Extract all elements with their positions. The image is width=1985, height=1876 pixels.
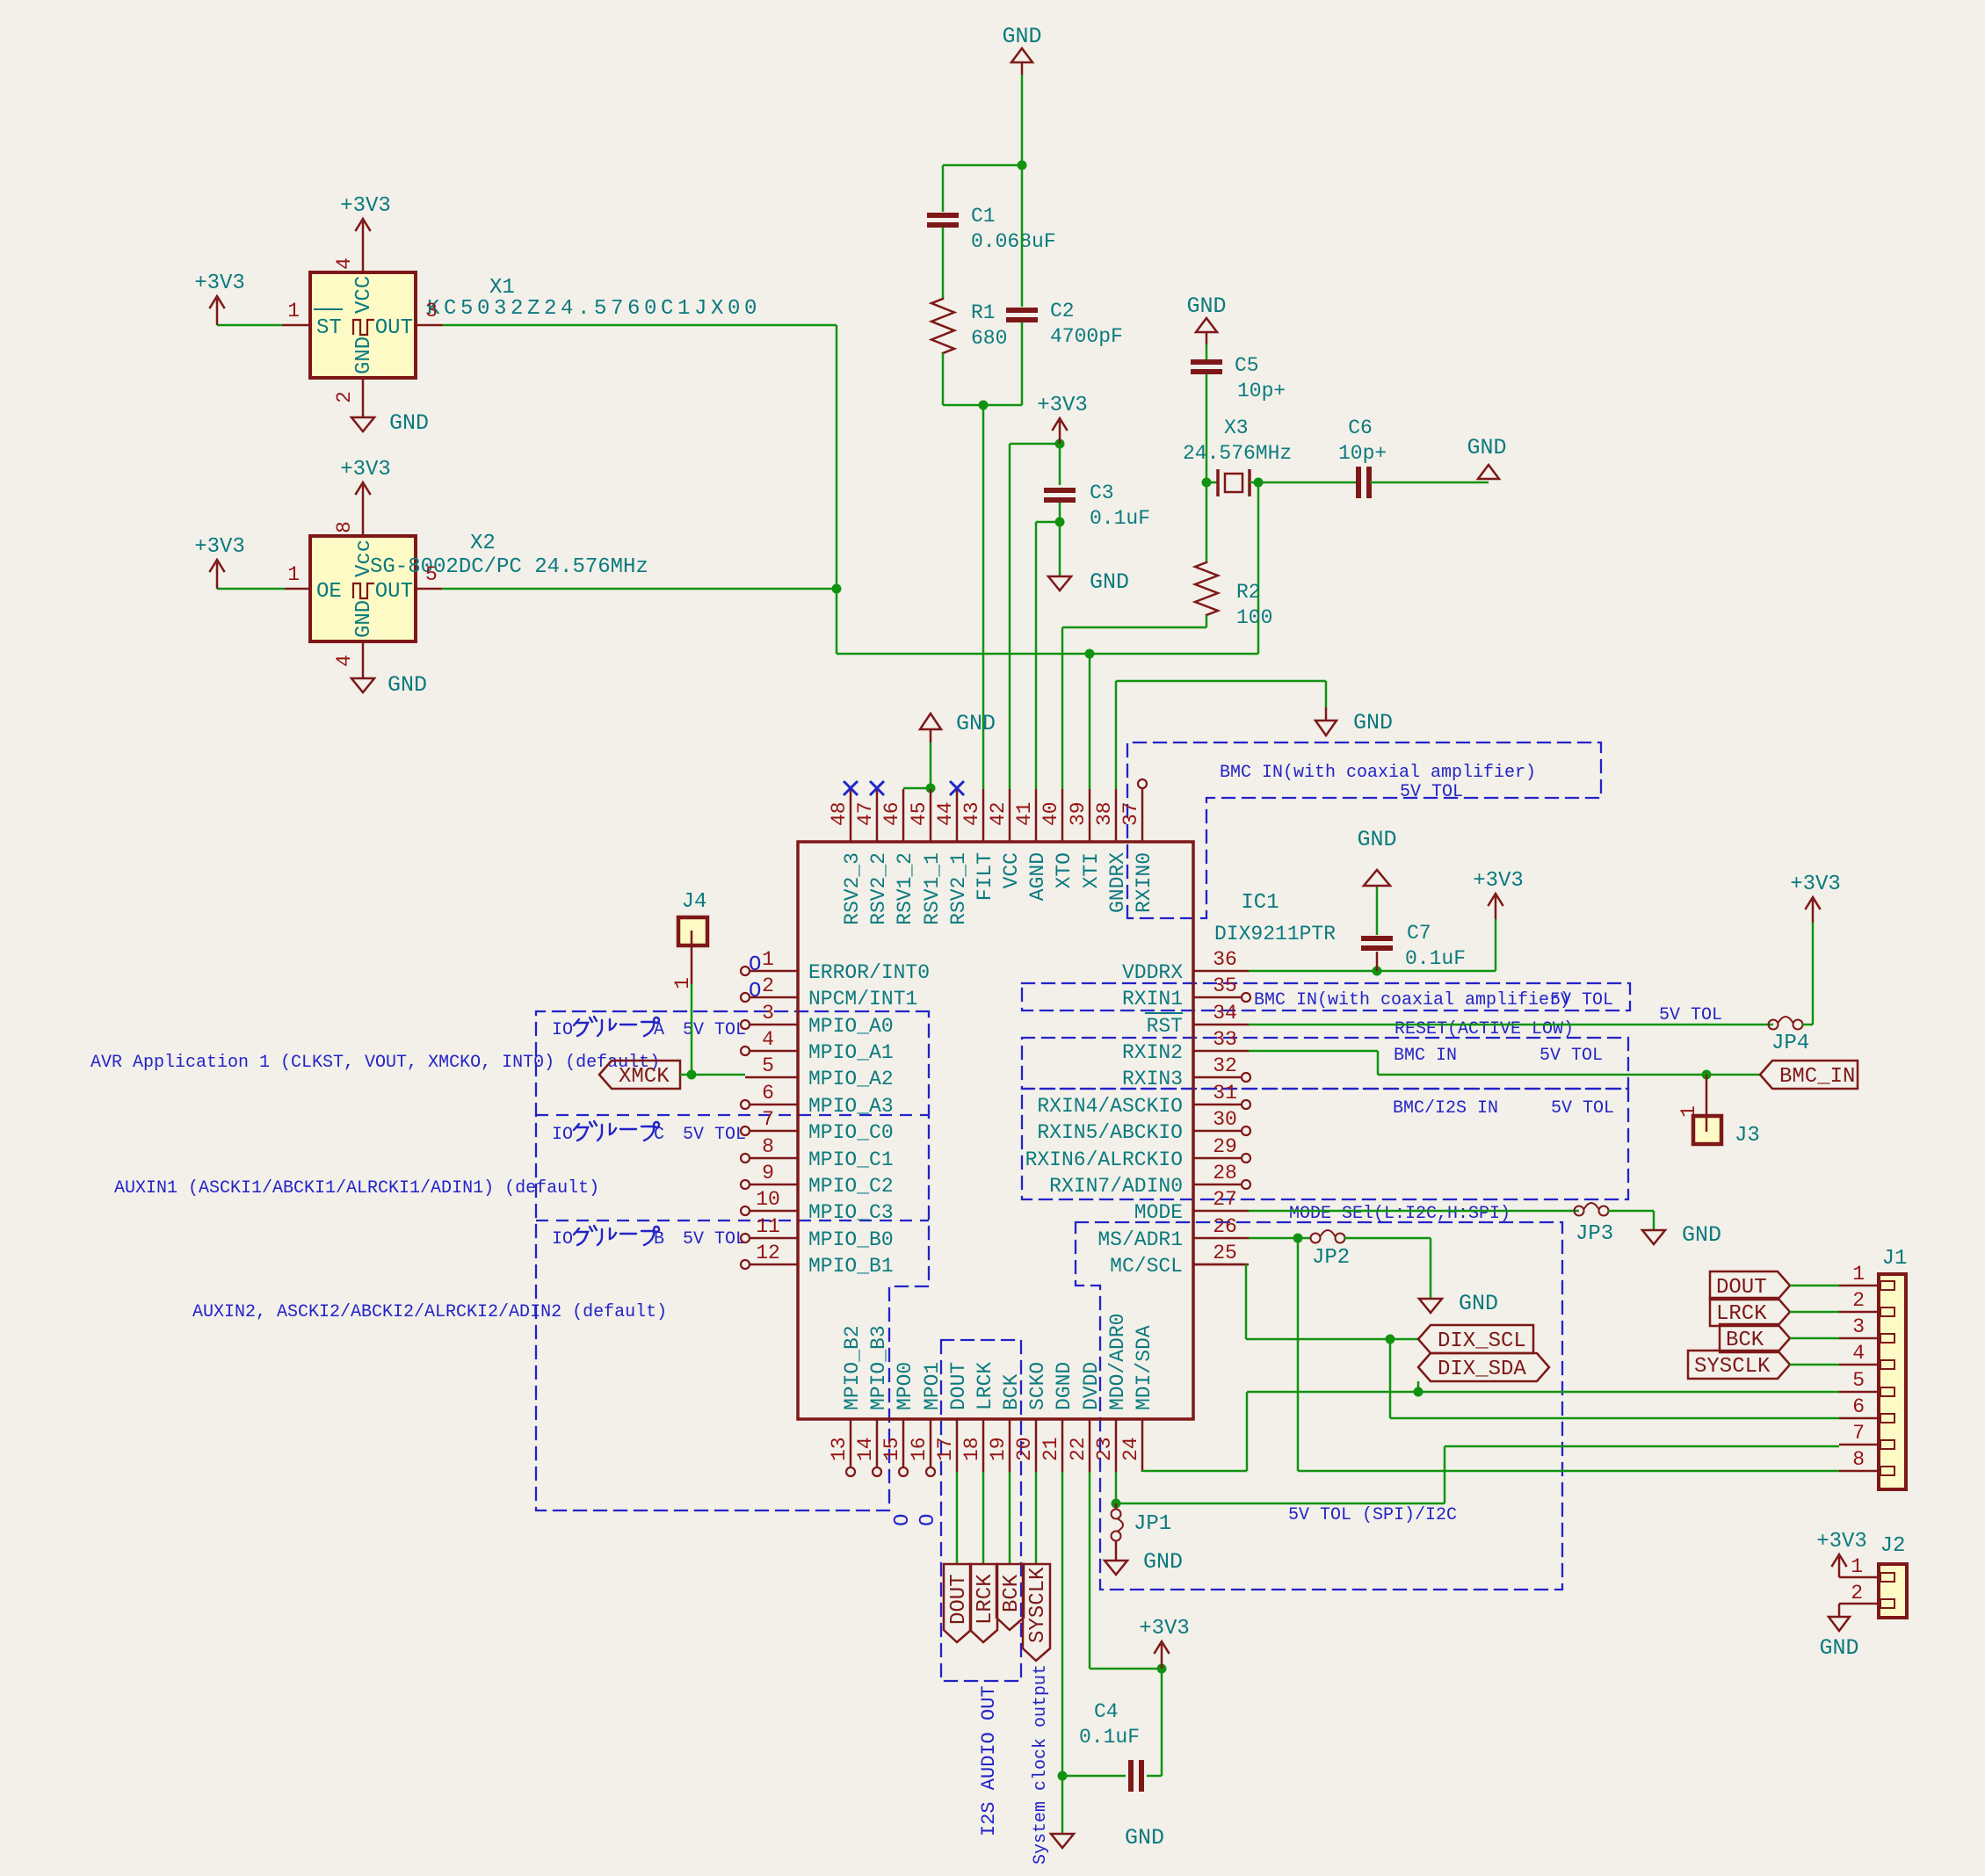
svg-text:GND: GND <box>1459 1291 1498 1316</box>
power +3V3 <box>216 299 219 325</box>
IC1 pin 40 XTO <box>1061 789 1064 842</box>
svg-text:BMC IN: BMC IN <box>1394 1046 1457 1066</box>
svg-text:JP2: JP2 <box>1312 1246 1350 1270</box>
svg-text:R2: R2 <box>1236 581 1261 604</box>
power GND <box>1051 1834 1074 1848</box>
svg-text:4: 4 <box>333 655 356 667</box>
power +3V3 <box>362 221 365 223</box>
note line IO group C top <box>536 1114 929 1116</box>
svg-text:MDI/SDA: MDI/SDA <box>1133 1325 1156 1410</box>
svg-text:5V TOL: 5V TOL <box>1659 1005 1722 1025</box>
X2 pin 8 (Vcc) <box>362 485 365 536</box>
wire XMCK to pin5 <box>680 1074 745 1076</box>
svg-text:1: 1 <box>287 300 300 322</box>
svg-text:O: O <box>891 1514 915 1526</box>
svg-text:MPIO_B2: MPIO_B2 <box>841 1325 864 1410</box>
svg-text:SYSCLK: SYSCLK <box>1026 1567 1050 1643</box>
svg-text:8: 8 <box>1852 1448 1865 1471</box>
J2 +3V3 <box>1838 1557 1841 1577</box>
svg-text:RESET(ACTIVE LOW): RESET(ACTIVE LOW) <box>1395 1019 1574 1039</box>
svg-text:47: 47 <box>854 801 877 826</box>
X2 pin 5 (OUT) <box>416 588 442 590</box>
svg-text:C5: C5 <box>1235 354 1259 377</box>
svg-text:15: 15 <box>880 1437 903 1461</box>
svg-text:MPIO_B1: MPIO_B1 <box>808 1255 894 1278</box>
svg-text:SYSCLK: SYSCLK <box>1694 1355 1771 1379</box>
svg-text:2: 2 <box>1852 1289 1865 1312</box>
J1 pin 8 <box>1839 1470 1879 1473</box>
svg-text:DVDD: DVDD <box>1080 1362 1103 1410</box>
junction C1/C2 top <box>1018 161 1027 170</box>
svg-text:AGND: AGND <box>1026 852 1049 901</box>
svg-text:32: 32 <box>1213 1054 1237 1077</box>
svg-text:GND: GND <box>1002 24 1041 49</box>
global label DIX_SCL <box>1418 1325 1533 1353</box>
svg-text:0.068uF: 0.068uF <box>971 230 1056 253</box>
junction X2 OUT <box>832 584 842 594</box>
J4 pin 1 <box>691 945 693 984</box>
svg-text:42: 42 <box>987 801 1010 826</box>
power GND <box>351 417 374 431</box>
wire C6 to GND <box>1370 482 1489 484</box>
power +3V3 <box>1495 896 1497 919</box>
oscillator X1 KC5032Z24.5760C1JX00 <box>310 272 416 378</box>
svg-text:DOUT: DOUT <box>947 1362 970 1410</box>
svg-text:+3V3: +3V3 <box>340 458 391 482</box>
svg-text:FILT: FILT <box>974 852 996 901</box>
IC1 pin 9 MPIO_C2 <box>750 1184 798 1186</box>
wire C4 right <box>1147 1775 1162 1778</box>
power +3V3 <box>1838 1556 1841 1559</box>
svg-text:R1: R1 <box>971 301 996 324</box>
svg-text:22: 22 <box>1067 1437 1090 1461</box>
svg-text:BCK: BCK <box>1000 1574 1024 1612</box>
X2 pin 4 (GND) <box>362 641 365 678</box>
IC1 pin 4 MPIO_A1 <box>750 1050 798 1053</box>
wire OUT rail to crystal <box>837 653 1258 656</box>
IC1 pin 2 NPCM/INT1 <box>750 996 798 999</box>
svg-text:RXIN6/ALRCKIO: RXIN6/ALRCKIO <box>1025 1148 1183 1171</box>
junction XTI column <box>1085 649 1095 659</box>
svg-text:MPIO_B3: MPIO_B3 <box>867 1325 890 1410</box>
svg-text:100: 100 <box>1236 606 1272 629</box>
svg-text:5V TOL: 5V TOL <box>1550 990 1613 1010</box>
svg-text:45: 45 <box>908 801 931 826</box>
power GND <box>1048 576 1071 590</box>
svg-text:MPIO_A3: MPIO_A3 <box>808 1095 894 1118</box>
svg-text:LRCK: LRCK <box>974 1362 996 1410</box>
svg-text:MPIO_C3: MPIO_C3 <box>808 1201 894 1224</box>
J2 pin 2 <box>1839 1603 1879 1605</box>
power GND (GNDRX) <box>1325 707 1328 721</box>
resistor R1 680 <box>931 299 954 353</box>
note box I2S AUDIO OUT <box>941 1340 1021 1681</box>
IC1 pin 23 MDO/ADR0 <box>1115 1419 1118 1472</box>
svg-text:4: 4 <box>333 257 356 270</box>
svg-text:30: 30 <box>1213 1108 1237 1131</box>
svg-text:10p+: 10p+ <box>1338 442 1387 465</box>
svg-text:5V TOL: 5V TOL <box>1539 1046 1603 1066</box>
global label LRCK (vertical) <box>970 1564 997 1642</box>
power GND <box>1642 1230 1665 1244</box>
IC1 pin 18 LRCK <box>982 1419 985 1472</box>
junction C4 <box>1058 1771 1068 1781</box>
IC1 pin 22 DVDD <box>1089 1419 1091 1472</box>
global label BCK (vertical) <box>996 1564 1024 1630</box>
wire RSV1 to GND <box>903 787 931 790</box>
connector J4 <box>678 917 707 945</box>
svg-text:C4: C4 <box>1094 1700 1119 1723</box>
svg-text:IO: IO <box>552 1020 573 1040</box>
wire C2 top <box>1021 165 1024 307</box>
wire AGND stub <box>1036 521 1060 524</box>
svg-text:23: 23 <box>1093 1437 1116 1461</box>
IC1 pin 14 MPIO_B3 <box>876 1419 879 1467</box>
svg-text:+3V3: +3V3 <box>1037 394 1088 417</box>
IC1 pin 44 RSV2_1 <box>956 789 959 842</box>
svg-text:XTO: XTO <box>1053 852 1076 888</box>
svg-text:17: 17 <box>934 1437 957 1461</box>
svg-text:6: 6 <box>1852 1395 1865 1418</box>
svg-text:BCK: BCK <box>1000 1373 1023 1410</box>
svg-text:7: 7 <box>1852 1422 1865 1445</box>
svg-text:VDDRX: VDDRX <box>1122 961 1183 984</box>
power GND <box>1419 1299 1442 1313</box>
IC1 pin 48 RSV2_3 <box>850 789 852 842</box>
svg-text:44: 44 <box>934 801 957 826</box>
svg-text:1: 1 <box>1851 1555 1863 1578</box>
svg-text:KC5032Z24.5760C1JX00: KC5032Z24.5760C1JX00 <box>427 297 761 321</box>
svg-text:RSV2_1: RSV2_1 <box>947 852 970 925</box>
svg-text:OUT: OUT <box>375 580 413 604</box>
svg-text:GND: GND <box>956 711 996 736</box>
svg-text:GND: GND <box>1819 1635 1858 1661</box>
svg-text:GNDRX: GNDRX <box>1106 852 1129 913</box>
svg-text:XTI: XTI <box>1080 852 1103 888</box>
note text IO group A <box>574 1017 597 1036</box>
IC1 pin 42 VCC <box>1009 789 1011 842</box>
junction XMCK <box>687 1070 697 1080</box>
svg-text:SCKO: SCKO <box>1026 1362 1049 1410</box>
wire VCC column <box>1009 444 1011 789</box>
svg-text:8: 8 <box>762 1135 774 1158</box>
wire JP3 to GND <box>1608 1210 1654 1213</box>
svg-text:RXIN0: RXIN0 <box>1133 852 1156 913</box>
junction pin45 <box>926 784 936 793</box>
wire JP4 to +3V3 <box>1802 1024 1813 1026</box>
IC1 pin 46 RSV1_2 <box>902 789 905 842</box>
connector J1 <box>1879 1274 1906 1489</box>
power GND above C7 <box>1364 870 1390 886</box>
svg-text:21: 21 <box>1040 1437 1062 1461</box>
svg-text:MDO/ADR0: MDO/ADR0 <box>1106 1314 1129 1410</box>
junction C7 <box>1373 967 1382 976</box>
svg-text:2: 2 <box>333 391 356 403</box>
resistor R2 100 <box>1195 562 1218 615</box>
wire C3 top <box>1059 444 1061 485</box>
note box MODE/SPI <box>1076 1222 1562 1590</box>
svg-text:X2: X2 <box>470 532 496 555</box>
IC1 pin 24 MDI/SDA <box>1141 1419 1144 1472</box>
svg-text:26: 26 <box>1213 1215 1237 1238</box>
svg-text:37: 37 <box>1119 801 1142 826</box>
svg-text:DOUT: DOUT <box>947 1574 971 1625</box>
svg-text:5: 5 <box>1852 1369 1865 1392</box>
svg-text:5: 5 <box>425 563 438 586</box>
wire bottom rail <box>943 404 1022 407</box>
svg-text:GND: GND <box>1467 435 1506 460</box>
IC1 pin 12 MPIO_B1 <box>750 1264 798 1266</box>
IC1 pin 19 BCK <box>1009 1419 1011 1472</box>
svg-text:I2S AUDIO OUT: I2S AUDIO OUT <box>978 1685 1000 1836</box>
J1 pin 2 <box>1839 1311 1879 1314</box>
svg-text:DIX_SDA: DIX_SDA <box>1438 1358 1526 1381</box>
wire R2 to XTO <box>1206 615 1208 627</box>
wire X1 OUT to column <box>443 324 837 327</box>
IC1 pin 16 MPO1 <box>930 1419 932 1467</box>
junction crystal left <box>1202 478 1212 488</box>
wire R2 top <box>1206 482 1208 562</box>
global label XMCK <box>599 1061 680 1089</box>
capacitor C6 10p+ <box>1356 467 1361 498</box>
jumper JP2 <box>1311 1234 1321 1243</box>
svg-text:OUT: OUT <box>375 316 413 340</box>
svg-text:GND: GND <box>352 600 376 638</box>
jumper JP1 <box>1115 1503 1118 1509</box>
junction DIX_SDA <box>1414 1387 1424 1397</box>
IC1 pin 10 MPIO_C3 <box>750 1210 798 1213</box>
IC1 pin 35 RXIN1 <box>1193 996 1242 999</box>
svg-text:AUXIN2, ASCKI2/ABCKI2/ALRCKI2/: AUXIN2, ASCKI2/ABCKI2/ALRCKI2/ADIN2 (def… <box>192 1302 667 1322</box>
svg-text:1: 1 <box>287 563 300 586</box>
X2 pin 1 (OE) <box>285 588 310 590</box>
svg-text:33: 33 <box>1213 1028 1237 1051</box>
wire JP2 net down to J1 pin8 row <box>1297 1238 1300 1471</box>
wire MS/ADR1 to JP2 <box>1249 1237 1310 1240</box>
wire MDI/SDA down <box>1141 1471 1144 1474</box>
global label BMC_IN <box>1760 1061 1858 1089</box>
power +3V3 <box>1059 421 1061 444</box>
wire RXIN2 to BMC_IN <box>1249 1050 1378 1053</box>
svg-text:5V TOL: 5V TOL <box>683 1229 746 1249</box>
svg-text:3: 3 <box>425 300 438 322</box>
svg-text:C1: C1 <box>971 205 996 228</box>
svg-text:IO: IO <box>552 1229 573 1249</box>
IC1 pin 1 ERROR/INT0 <box>750 970 798 973</box>
wire GND-C5 <box>1206 344 1208 359</box>
svg-text:4: 4 <box>762 1028 774 1051</box>
svg-text:29: 29 <box>1213 1135 1237 1158</box>
IC1 pin 25 MC/SCL <box>1193 1264 1249 1266</box>
wire C3 bottom <box>1059 503 1061 522</box>
svg-text:GND: GND <box>1143 1549 1183 1575</box>
svg-text:MPIO_A0: MPIO_A0 <box>808 1015 894 1038</box>
svg-text:2: 2 <box>1851 1582 1863 1604</box>
note box BMC IN RXIN0 <box>1127 742 1601 918</box>
svg-text:10: 10 <box>756 1188 780 1211</box>
X1 pin 1 (ST) <box>282 324 310 327</box>
svg-text:11: 11 <box>756 1215 780 1238</box>
svg-text:GND: GND <box>1353 710 1393 735</box>
J1 pin 6 <box>1839 1417 1879 1420</box>
wire MODE to JP3 <box>1249 1210 1579 1213</box>
capacitor C3 0.1uF <box>1044 488 1076 493</box>
J1 pin 1 <box>1839 1285 1879 1287</box>
svg-text:DIX9211PTR: DIX9211PTR <box>1214 923 1336 945</box>
capacitor C1 0.068uF <box>927 213 959 218</box>
IC1 pin 7 MPIO_C0 <box>750 1130 798 1133</box>
svg-text:OE: OE <box>316 580 342 604</box>
svg-text:41: 41 <box>1013 801 1036 826</box>
svg-text:C3: C3 <box>1090 482 1114 504</box>
IC1 pin 28 RXIN7/ADIN0 <box>1193 1184 1242 1186</box>
global label DOUT (vertical) <box>944 1564 971 1642</box>
svg-text:4700pF: 4700pF <box>1050 325 1123 348</box>
IC U1 DIX9211PTR body <box>798 842 1193 1419</box>
note text IO group B <box>574 1226 597 1245</box>
svg-text:1: 1 <box>762 948 774 971</box>
wire VDDRX up <box>1495 919 1497 971</box>
wire VDDRX <box>1249 970 1496 973</box>
svg-text:RXIN5/ABCKIO: RXIN5/ABCKIO <box>1037 1121 1183 1144</box>
note box BMC IN (RXIN2/3) <box>1022 1038 1628 1089</box>
IC1 pin 33 RXIN2 <box>1193 1050 1249 1053</box>
svg-text:RXIN1: RXIN1 <box>1122 988 1183 1010</box>
svg-text:+3V3: +3V3 <box>1816 1530 1867 1554</box>
wire FILT column <box>982 405 985 789</box>
global label SYSCLK (J1) <box>1688 1351 1790 1379</box>
svg-text:+3V3: +3V3 <box>194 535 245 559</box>
IC1 pin 47 RSV2_2 <box>876 789 879 842</box>
IC1 pin 38 GNDRX <box>1115 789 1118 842</box>
svg-text:28: 28 <box>1213 1162 1237 1184</box>
svg-text:GND: GND <box>1357 827 1396 852</box>
svg-text:8: 8 <box>333 521 356 533</box>
svg-text:LRCK: LRCK <box>974 1574 997 1625</box>
capacitor C5 10p+ <box>1191 359 1222 365</box>
svg-text:0.1uF: 0.1uF <box>1079 1726 1140 1749</box>
power +3V3 <box>1812 900 1815 923</box>
jumper JP4 <box>1769 1020 1779 1030</box>
svg-text:MPIO_C2: MPIO_C2 <box>808 1175 894 1198</box>
IC1 pin 5 MPIO_A2 <box>745 1076 798 1079</box>
wire OUT vertical <box>836 325 838 654</box>
junction crystal right <box>1254 478 1264 488</box>
IC1 pin 13 MPIO_B2 <box>850 1419 852 1467</box>
svg-text:19: 19 <box>987 1437 1010 1461</box>
junction AGND <box>1055 518 1065 527</box>
svg-text:36: 36 <box>1213 948 1237 971</box>
svg-text:A: A <box>654 1020 664 1040</box>
svg-text:J2: J2 <box>1880 1534 1906 1558</box>
wire GNDRX <box>1115 681 1118 789</box>
svg-text:X3: X3 <box>1224 416 1249 439</box>
J2 pin 1 <box>1839 1576 1879 1579</box>
svg-text:1: 1 <box>1852 1263 1865 1286</box>
wire OE to +3V3 <box>217 588 285 590</box>
svg-text:39: 39 <box>1067 801 1090 826</box>
svg-text:BMC_IN: BMC_IN <box>1779 1065 1855 1089</box>
svg-text:6: 6 <box>762 1082 774 1105</box>
svg-text:12: 12 <box>756 1242 780 1264</box>
svg-text:MPIO_C1: MPIO_C1 <box>808 1148 894 1171</box>
wire GND to junction <box>1021 75 1024 165</box>
jumper JP3 <box>1575 1206 1584 1216</box>
X1 pin 4 (VCC) <box>362 221 365 272</box>
svg-text:MS/ADR1: MS/ADR1 <box>1098 1228 1183 1251</box>
IC1 pin 32 RXIN3 <box>1193 1076 1242 1079</box>
oscillator X2 SG-8002DC/PC <box>310 536 416 641</box>
svg-text:J4: J4 <box>682 890 707 914</box>
svg-text:10p+: 10p+ <box>1237 380 1286 402</box>
wire C1-R1 <box>942 228 945 299</box>
svg-text:MODE SEl(L:I2C,H:SPI): MODE SEl(L:I2C,H:SPI) <box>1289 1204 1510 1224</box>
connector J2 <box>1879 1564 1907 1618</box>
svg-text:GND: GND <box>352 337 376 374</box>
junction +3V3/C3 <box>1055 439 1065 449</box>
svg-text:VCC: VCC <box>352 276 376 314</box>
svg-text:31: 31 <box>1213 1082 1237 1105</box>
wire C5 to crystal <box>1206 374 1208 482</box>
J1 pin 5 <box>1839 1391 1879 1394</box>
global label BCK (J1) <box>1720 1324 1790 1352</box>
svg-text:5V TOL: 5V TOL <box>1551 1098 1614 1119</box>
note box IO group A <box>536 1011 929 1510</box>
note text IO group C <box>574 1121 597 1141</box>
wire MDO/ADR0 down <box>1115 1472 1118 1503</box>
IC1 pin 8 MPIO_C1 <box>750 1157 798 1160</box>
svg-text:14: 14 <box>854 1437 877 1461</box>
capacitor C4 0.1uF <box>1062 1775 1126 1778</box>
junction J3 <box>1702 1070 1712 1080</box>
IC1 pin 21 DGND <box>1061 1419 1064 1472</box>
wire DGND down <box>1061 1472 1064 1776</box>
wire crystal right vertical <box>1257 482 1260 654</box>
wire DGND to GND <box>1061 1776 1064 1834</box>
junction DIX_SCL <box>1386 1335 1395 1344</box>
note box RXIN1 <box>1022 983 1630 1010</box>
pin 37 open end <box>1138 779 1147 788</box>
svg-text:RSV2_3: RSV2_3 <box>841 852 864 925</box>
wire DVDD down <box>1089 1472 1091 1669</box>
svg-text:O: O <box>916 1514 940 1526</box>
svg-text:GND: GND <box>1125 1825 1164 1851</box>
IC1 pin 29 RXIN6/ALRCKIO <box>1193 1157 1242 1160</box>
IC1 pin 31 RXIN4/ASCKIO <box>1193 1104 1242 1106</box>
svg-text:RST: RST <box>1147 1015 1183 1038</box>
note line IO group B top <box>536 1220 929 1221</box>
J1 pin 3 <box>1839 1337 1879 1340</box>
IC1 pin 34 RST <box>1193 1024 1249 1026</box>
svg-text:GND: GND <box>388 672 427 698</box>
svg-text:5V TOL: 5V TOL <box>683 1125 746 1145</box>
global label DOUT (J1) <box>1710 1271 1790 1300</box>
svg-text:MPIO_A1: MPIO_A1 <box>808 1041 894 1064</box>
connector J3 <box>1706 1075 1708 1116</box>
svg-text:7: 7 <box>762 1108 774 1131</box>
svg-text:ST: ST <box>316 316 342 340</box>
power GND (RSV1) <box>930 729 932 742</box>
svg-text:46: 46 <box>880 801 903 826</box>
svg-text:C2: C2 <box>1050 300 1075 322</box>
svg-text:RSV2_2: RSV2_2 <box>867 852 890 925</box>
wire C7 to GND <box>1376 886 1379 935</box>
svg-text:C: C <box>654 1125 664 1145</box>
wire XTI column <box>1089 654 1091 789</box>
X1 pin 3 (OUT) <box>416 324 443 327</box>
svg-text:BMC IN(with coaxial amplifier): BMC IN(with coaxial amplifier) <box>1220 763 1536 783</box>
svg-text:MPO0: MPO0 <box>894 1362 916 1410</box>
